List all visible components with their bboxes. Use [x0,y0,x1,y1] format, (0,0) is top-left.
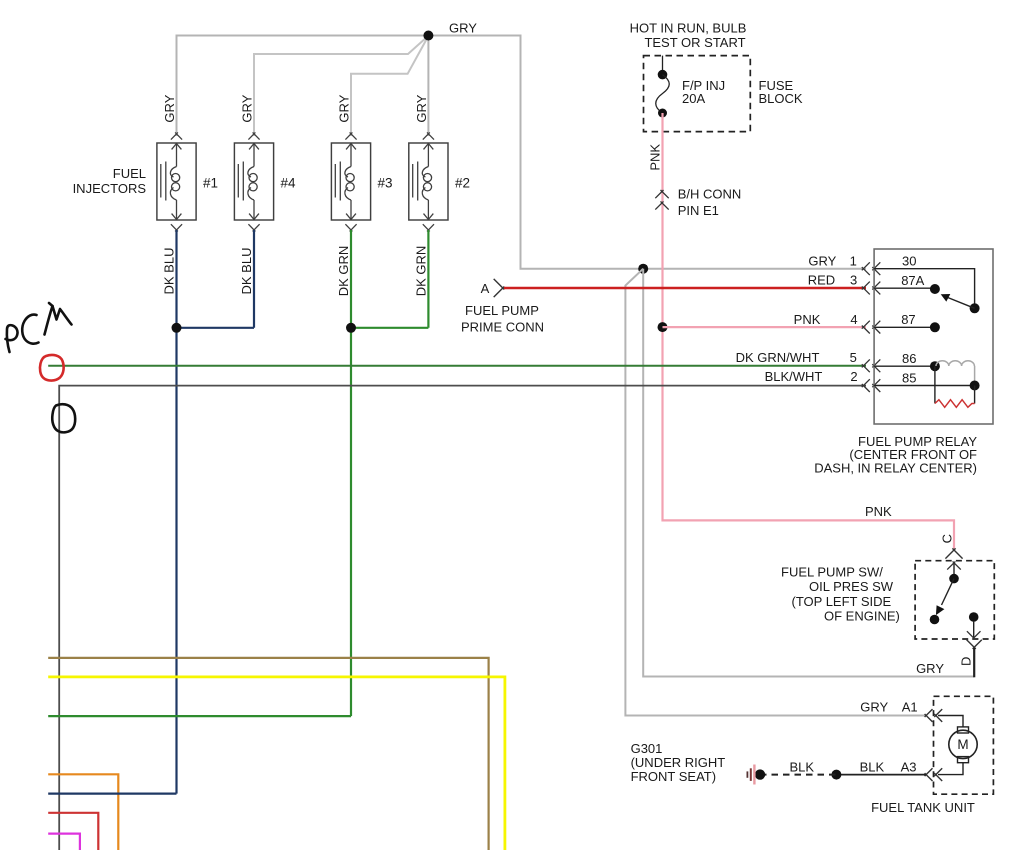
svg-text:30: 30 [902,254,916,269]
relay resistor [934,366,936,403]
svg-text:A1: A1 [902,700,918,715]
wire GRY branch to fuel tank A1 [625,269,926,716]
svg-text:85: 85 [902,370,916,385]
svg-text:3: 3 [850,273,857,288]
wire GRY branch to oil pressure switch D [643,269,974,677]
wire BLK/WHT from PCM to relay pin 2 [59,386,866,850]
node DK GRN splice dot [346,323,356,333]
svg-text:4: 4 [850,312,857,327]
wire PNK from fuse down and over to pump switch C [663,113,955,550]
relay coil [936,361,974,366]
connector chevrons relay pin 3 [862,282,870,290]
fuel tank unit dashed box [934,696,994,794]
svg-text:BLOCK: BLOCK [759,91,803,106]
svg-text:DK GRN/WHT: DK GRN/WHT [736,350,820,365]
svg-text:FUEL: FUEL [113,166,146,181]
wire DK GRN injector 3 down to PCM [350,230,352,716]
svg-text:B/H CONN: B/H CONN [678,187,742,202]
connector A chevron [494,279,505,290]
wire PNK branch to relay pin 4 [663,326,867,328]
wire BLK stub below D [973,648,975,677]
svg-text:DK GRN: DK GRN [336,246,351,297]
svg-text:OF ENGINE): OF ENGINE) [824,609,900,624]
wire ORN PCM row [48,774,118,850]
wire YEL PCM row [48,677,505,850]
connector chevrons A3 [925,768,933,776]
svg-text:DK BLU: DK BLU [239,248,254,295]
motor brush top [958,727,969,733]
wire GRY from injector 2 up to node [427,36,429,137]
annotation black circle on BLK/WHT wire [52,404,75,432]
svg-text:OIL PRES SW: OIL PRES SW [809,579,894,594]
wire DK BLU injector 1 down to PCM [175,230,177,794]
wire motor feed from A1 [938,716,963,727]
connector chevrons relay pin 1 [862,262,870,270]
node BLK ground dot [755,769,765,779]
svg-text:GRY: GRY [449,21,477,36]
fuel pump switch dashed box [915,561,994,639]
svg-text:FUEL PUMP SW/: FUEL PUMP SW/ [781,565,883,580]
svg-text:#3: #3 [378,176,393,191]
svg-text:DK GRN: DK GRN [413,246,428,297]
relay terminal 87A [874,287,935,289]
motor brush bottom [958,757,969,763]
injector #3 [331,132,370,231]
svg-text:G301: G301 [631,741,663,756]
svg-text:GRY: GRY [162,94,177,122]
injector #1 [157,132,196,231]
svg-text:1: 1 [850,253,857,268]
svg-text:D: D [958,657,973,666]
connector chevron D [967,640,976,649]
wire BLK dashed segment to ground [760,774,836,776]
svg-text:BLK: BLK [860,759,885,774]
node GRY splice dot [423,31,433,41]
svg-text:C: C [940,534,955,543]
svg-text:RED: RED [808,273,835,288]
connector chevrons A1 [925,709,933,717]
svg-text:GRY: GRY [860,700,888,715]
switch pin C lead with up arrow [953,563,955,579]
relay terminal 85 [874,385,975,387]
injector #4 [234,132,273,231]
svg-text:PNK: PNK [794,312,821,327]
switch arm with arrowhead [942,579,955,605]
injector #2 [409,132,448,231]
annotation PCM handwritten [6,303,72,352]
svg-text:GRY: GRY [337,94,352,122]
svg-text:87A: 87A [901,273,924,288]
svg-text:FRONT SEAT): FRONT SEAT) [631,769,716,784]
svg-text:TEST OR START: TEST OR START [644,35,745,50]
wire BLK solid segment [836,774,926,776]
svg-text:INJECTORS: INJECTORS [73,181,147,196]
svg-text:#4: #4 [281,176,297,191]
wire motor return to A3 [938,763,963,775]
wire DK GRN joining segment [351,327,428,329]
switch contact bottom-right dot [969,612,979,622]
svg-text:87: 87 [901,312,915,327]
relay terminal 87 [874,326,935,328]
relay terminal 86 [874,365,935,367]
connector chevron C [945,548,955,558]
svg-text:FUEL PUMP: FUEL PUMP [465,303,539,318]
svg-text:PRIME CONN: PRIME CONN [461,320,544,335]
svg-text:86: 86 [902,351,916,366]
svg-text:#2: #2 [455,176,470,191]
motor M [949,730,977,758]
wire DK GRN run to PCM [48,715,351,717]
fuse F/P INJ 20A [662,56,664,75]
wire MAG PCM row [48,834,80,850]
connector chevrons relay pin 5 [862,359,870,367]
wire GRY from node down to relay pin 1 [428,36,866,269]
relay switch arm with arrowhead [947,297,975,308]
svg-text:(UNDER RIGHT: (UNDER RIGHT [631,755,726,770]
wire RED PCM row [48,813,98,850]
svg-text:5: 5 [850,350,857,365]
fuse block dashed box [644,56,751,132]
node BLK splice dot [831,770,841,780]
svg-text:HOT IN RUN, BULB: HOT IN RUN, BULB [630,21,747,36]
svg-text:PNK: PNK [865,504,892,519]
wire DK GRN/WHT from PCM to relay pin 5 [48,365,866,367]
wire GRY from injector 3 to node [351,37,428,136]
wire GRY from injector 1 to node [177,36,429,137]
node DK BLU splice dot [172,323,182,333]
svg-text:GRY: GRY [414,94,429,122]
svg-text:GRY: GRY [916,661,944,676]
svg-text:PNK: PNK [647,144,662,171]
wire DK GRN injector 2 down [427,230,429,328]
switch contact bottom-left dot [930,615,940,625]
svg-text:FUEL TANK UNIT: FUEL TANK UNIT [871,800,975,815]
node GRY splice dot near relay [638,264,648,274]
svg-text:BLK: BLK [790,759,815,774]
relay switch common dot [970,303,980,313]
svg-text:A: A [481,281,490,296]
relay U1 box [874,249,993,424]
connector chevrons relay pin 4 [862,321,870,329]
svg-text:DASH, IN RELAY CENTER): DASH, IN RELAY CENTER) [814,461,977,476]
wire RED to relay pin 3 [504,287,866,290]
svg-text:A3: A3 [901,759,917,774]
svg-text:20A: 20A [682,91,705,106]
connector chevrons relay pin 2 [862,379,870,387]
svg-text:M: M [957,737,968,752]
ground G301 symbol [753,765,755,785]
relay terminal 30 [874,269,975,309]
switch pin D lead with down arrow [973,621,975,638]
svg-text:GRY: GRY [240,94,255,122]
svg-text:(TOP LEFT SIDE: (TOP LEFT SIDE [792,594,892,609]
node PNK splice dot [658,322,668,332]
wire GRY from injector 4 to node [254,37,428,137]
svg-text:#1: #1 [203,176,218,191]
switch contact top dot [949,574,959,584]
wire DK BLU run to PCM [48,792,176,794]
svg-text:GRY: GRY [808,253,836,268]
wire TAN PCM row [48,658,488,850]
svg-text:BLK/WHT: BLK/WHT [765,369,823,384]
svg-text:DK BLU: DK BLU [161,248,176,295]
connector B/H CONN PIN E1 [655,190,663,198]
wire DK BLU joining segment [177,327,255,329]
svg-text:2: 2 [850,369,857,384]
wire DK BLU injector 4 down [253,230,255,328]
svg-text:PIN E1: PIN E1 [678,203,719,218]
annotation red circle around DK GRN/WHT wire end [40,355,64,381]
